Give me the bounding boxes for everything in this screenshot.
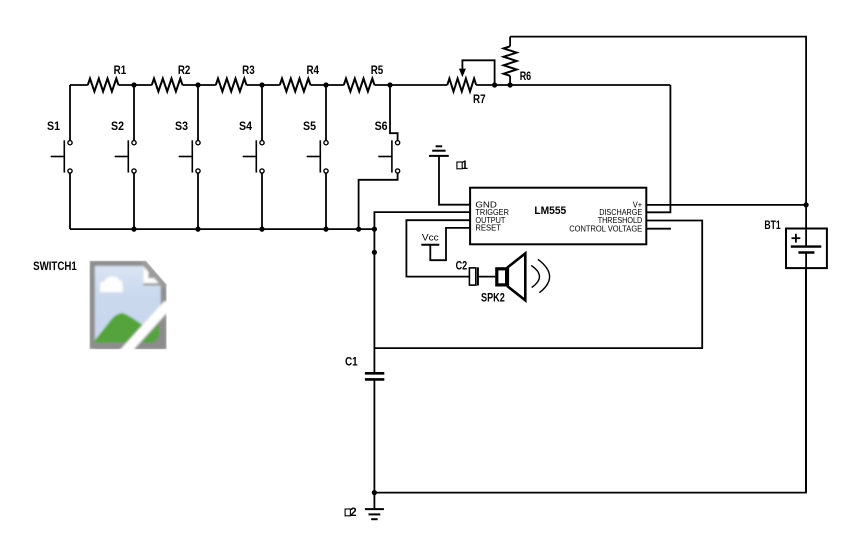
svg-text:SWITCH1: SWITCH1 <box>33 259 77 273</box>
svg-text:CONTROL VOLTAGE: CONTROL VOLTAGE <box>569 224 642 233</box>
svg-text:R1: R1 <box>114 63 127 77</box>
svg-text:S1: S1 <box>47 119 60 133</box>
svg-text:LM555: LM555 <box>534 205 566 217</box>
svg-text:R2: R2 <box>178 63 191 77</box>
svg-text:R6: R6 <box>520 69 532 83</box>
svg-text:R3: R3 <box>242 63 255 77</box>
svg-text:SPK2: SPK2 <box>481 291 505 305</box>
svg-text:RESET: RESET <box>475 224 501 233</box>
svg-text:R4: R4 <box>306 63 319 77</box>
svg-text:S3: S3 <box>175 119 188 133</box>
svg-text:S2: S2 <box>111 119 124 133</box>
svg-text:Vcc: Vcc <box>422 233 439 244</box>
svg-text:C2: C2 <box>456 258 468 272</box>
svg-text:BT1: BT1 <box>764 218 780 232</box>
svg-text:2: 2 <box>350 507 356 519</box>
svg-text:C1: C1 <box>345 355 358 369</box>
svg-text:1: 1 <box>462 160 469 172</box>
svg-text:R5: R5 <box>371 63 384 77</box>
svg-text:S4: S4 <box>239 119 252 133</box>
svg-text:S5: S5 <box>303 119 316 133</box>
svg-text:S6: S6 <box>375 119 388 133</box>
svg-text:R7: R7 <box>473 92 486 106</box>
